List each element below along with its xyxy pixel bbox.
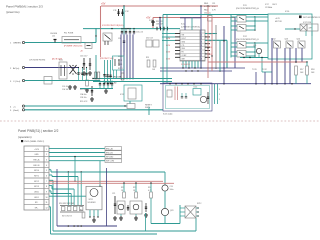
cap C22 [127,205,129,211]
svg-text:Q12: Q12 [272,39,276,41]
svg-text:FB: FB [182,52,184,54]
key stem 2 [80,172,82,207]
cap C21 with ground [114,196,116,214]
svg-text:K0 K1 K2 K3: K0 K1 K2 K3 [62,216,72,218]
sub circuit red wires [174,87,176,101]
svg-text:KEY1: KEY1 [34,175,39,177]
junction dots vertical bundle [207,47,208,48]
teal wire to optics [163,14,268,16]
fuse F11 box [62,37,81,44]
photo interrupter B body 1 [237,42,246,49]
ground under speaker pins [93,218,95,220]
svg-text:PI11: PI11 [243,5,247,7]
svg-text:8: 8 [46,186,47,188]
svg-text:CHOKE: CHOKE [50,33,58,35]
svg-text:(PHOTOINTERRUPTER)_A: (PHOTOINTERRUPTER)_A [236,7,259,10]
svg-text:R17: R17 [300,69,303,71]
svg-text:12.5MHz: 12.5MHz [265,7,272,9]
svg-text:C1H 104: C1H 104 [62,89,68,91]
junction dots on sub box bus [169,83,171,85]
resistor R1C [121,73,124,80]
svg-text:Panel PWB(S1) | section 2/2: Panel PWB(S1) | section 2/2 [18,129,59,133]
IC12 right pins [205,33,210,35]
cap column C20 [107,60,109,84]
navy stub wire near RA11 [180,17,201,19]
svg-text:10K 10K: 10K 10K [156,23,164,25]
svg-text:+5V: +5V [101,3,106,6]
junction dots on labeled wires [92,78,93,79]
svg-text:4: 4 [46,165,47,167]
capacitor C1E [91,86,93,96]
diode bridge D12 [85,43,92,49]
svg-text:(power line): (power line) [6,10,20,14]
capacitor C11 [118,9,120,16]
photo interrupter A body 2 [237,25,246,32]
svg-text:C1A 10u: C1A 10u [80,93,87,96]
transistor Q22 box [130,201,142,214]
node junction on +5V rail [200,5,202,7]
ground under Q22 [135,214,137,216]
choke L11 [54,40,56,43]
svg-text:SP-: SP- [35,202,39,204]
sub caps right [207,92,209,104]
svg-text:SP12: SP12 [197,203,201,205]
svg-text:SW11: SW11 [145,107,151,109]
vertical wires right of IC12 [200,6,202,68]
speaker SP11 box [86,186,102,210]
capacitor C16 [83,58,85,70]
key stem 4 [73,189,75,207]
wire row9 rail y193.5 [49,190,51,192]
main line wire from connector [25,42,96,44]
svg-text:1.2 0.0 3.1: 1.2 0.0 3.1 [181,64,190,66]
photo interrupter B body 2 [237,51,246,58]
IC12 left input wires [162,33,175,35]
key switch rail top [60,205,84,207]
svg-text:SCL1: SCL1 [118,60,122,62]
svg-text:1: 1 [219,99,220,101]
not mounted box bottom [185,206,196,218]
svg-text:IC17: IC17 [265,4,269,6]
vertical wire bundle centre [120,35,122,79]
svg-text:6: 6 [46,175,47,177]
wire below Q23 [164,216,166,224]
pin dots below caps [104,83,105,84]
svg-text:2: 2 [46,154,47,156]
wire row4 branch down [99,161,101,187]
svg-text:PI12: PI12 [243,36,247,38]
net label boxes [105,147,122,151]
resistor by speaker [82,212,85,218]
svg-text:SW1 SW2 SW3 SW4: SW1 SW2 SW3 SW4 [59,203,74,205]
resistor R19 [147,60,150,67]
svg-text:+4.2V: +4.2V [275,18,281,20]
navy vertical right of speaker [106,168,108,226]
PI A left wires [231,16,237,18]
bottom cap bank rail [80,88,113,90]
svg-text:R1D 4.7K: R1D 4.7K [80,101,88,103]
svg-text:OSC1: OSC1 [272,4,277,6]
svg-text:IC15 (sub): IC15 (sub) [163,114,173,116]
PI B left wires [231,42,237,44]
svg-text:ENC-A1: ENC-A1 [106,147,113,150]
GND wire [25,109,163,111]
PI A wires [246,16,255,18]
svg-text:RL11: RL11 [59,60,63,62]
cap column filter 3 [86,68,88,81]
svg-text:C24: C24 [170,186,173,188]
svg-text:C1G 104: C1G 104 [62,86,68,88]
IC12 body [180,30,205,61]
svg-text:GREEN: GREEN [13,43,21,45]
svg-text:IC11 PROTECTOR(5.0V): IC11 PROTECTOR(5.0V) [102,25,124,27]
PI A to main unit wires [255,16,268,18]
ground under Q21 [120,214,122,216]
bottom wire to X-box [151,223,180,225]
svg-text:(operation): (operation) [18,135,32,139]
diode D11 [151,21,155,23]
svg-text:VOUT: VOUT [182,38,186,40]
wire navy vertical x160 [159,18,161,29]
svg-text:4.7KX4: 4.7KX4 [204,6,210,8]
svg-text:ISET: ISET [182,58,186,60]
svg-text:R19: R19 [146,57,149,59]
teal wire lower right [240,57,268,59]
legend not-mounted [299,16,302,19]
wire row12 bottom rail [49,206,51,208]
svg-text:SNS: SNS [182,48,185,50]
svg-text:12: 12 [45,207,47,209]
IC12 bottom pins to bus [182,61,184,68]
svg-text:SOUNDER: SOUNDER [88,202,97,204]
svg-text:TO11: TO11 [252,69,257,71]
svg-text:5: 5 [46,170,47,172]
svg-text:(CHARGE CONTROL): (CHARGE CONTROL) [181,26,200,29]
wire red vertical x153 [152,18,154,29]
main horizontal bus at sub box top [160,83,311,85]
svg-text:COMP: COMP [182,55,187,57]
verticals from transistors [271,38,273,84]
svg-text:F11 FUSE: F11 FUSE [64,33,74,35]
svg-text:SDA1: SDA1 [118,55,122,58]
wire row6 rail y176.5 [49,174,52,176]
resistor array RA11 body [208,16,213,22]
red rail bottom section lower [49,182,174,184]
svg-text:R18: R18 [311,69,314,71]
protector IC Q10 body [103,33,112,41]
main unit teal box [268,14,312,59]
transistor Q12 [274,41,281,48]
PI B to main unit wire [255,42,268,44]
wire row5 to rail 172 [49,169,51,171]
ground under C16 [83,71,85,73]
sub box right vertical wires [214,84,216,104]
svg-text:+C: +C [13,106,16,108]
cap column C19 [104,60,106,84]
transistor Q14 [298,41,305,48]
junction dots on navy bottom rail [68,225,70,227]
svg-text:KEY0: KEY0 [34,170,39,172]
cap column C21a [110,60,112,84]
svg-text:MOTOR: MOTOR [275,21,282,23]
wire riser x145 [145,213,147,231]
transistor Q13 [286,41,293,48]
+5V rail top [101,5,218,7]
riser to C24 [164,172,166,185]
svg-text:Q11: Q11 [253,45,256,47]
x-box stubs [180,207,185,209]
left labeled wire POWER SW [93,78,172,80]
svg-text:3: 3 [219,89,220,91]
wire riser to speaker network [195,218,197,231]
reset ic lower box [127,104,135,109]
reset sw stub [148,107,150,115]
+5V secondary rail [153,17,235,19]
ground under C17 [89,71,91,73]
reset IC box [124,85,142,101]
connector CN12 header [21,140,23,142]
resistor R1B [98,72,100,79]
resistor R18 [306,66,309,75]
component boxes right of bundle [146,40,152,47]
teal vertical mid-left [95,55,97,79]
svg-text:D12 D13: D12 D13 [146,38,153,40]
teal vertical second [166,15,168,84]
svg-text:LED0: LED0 [34,191,39,193]
wire row8 rail y189 [49,185,52,187]
ground bottom cap bank [105,89,107,91]
key stem 3 [77,177,79,207]
main 5V bus wire [83,28,180,30]
+5V rail vertical drop [100,6,102,29]
vertical stubs right of teal box [113,70,115,79]
svg-text:11: 11 [46,202,48,204]
PI B wires [246,42,255,44]
ground under C1E [91,97,93,99]
speaker pins [89,210,91,217]
svg-text:IC12: IC12 [181,24,185,26]
svg-text:ENC-A: ENC-A [34,158,41,161]
svg-text:LED1: LED1 [34,197,39,199]
svg-text:C31: C31 [212,3,215,5]
cap C23 and ground [145,203,147,212]
teal vertical to sub box [162,15,164,84]
section separator dashed line [0,120,320,122]
resistor R20 [153,60,156,67]
navy bottom rail [57,225,117,227]
wire row10 to speaker [49,195,86,197]
svg-text:1: 1 [46,149,47,151]
electrolytic cap C24 [162,185,168,191]
wire row3 branch down [74,157,76,182]
svg-text:2: 2 [219,94,220,96]
svg-text:Q23: Q23 [170,210,173,212]
resistor ticks on bus [156,27,158,31]
resistor R17 [295,66,298,75]
junction dots on 5V bus [111,28,112,29]
speaker cone circle [90,189,98,197]
svg-text:(PHOTOINTERRUPTER)_B: (PHOTOINTERRUPTER)_B [236,39,259,41]
svg-text:IC13: IC13 [120,94,124,96]
transistor Q11 [256,48,261,53]
HD wire [25,105,127,107]
junction on secondary rail [159,17,161,19]
sub circuit outer box [163,83,212,111]
svg-text:NOT-MOUNTED PARTS: NOT-MOUNTED PARTS [303,16,320,19]
svg-text:9: 9 [46,191,47,193]
wires from +5V rail to IC12 top [184,18,186,31]
C out wire [25,80,100,82]
cap column filter 2 [82,68,84,81]
svg-text:AC(in): AC(in) [13,67,19,70]
wire teal from IC12 pin to right [205,33,217,35]
svg-text:(POWER ON:DC5V): (POWER ON:DC5V) [64,46,83,48]
key stem 1 [67,172,69,207]
node junction on +5V rail at C bank [123,5,125,7]
power sw bus upper [160,67,245,69]
svg-text:KEY3: KEY3 [34,186,39,188]
AC in wire [25,67,78,69]
svg-text:C1F (NOISE FILTER): C1F (NOISE FILTER) [29,60,46,62]
svg-text:CTL: CTL [182,45,185,47]
key switch rail bottom [60,211,84,213]
svg-text:100u: 100u [170,189,174,191]
svg-text:Q14: Q14 [297,39,301,41]
key switches SW1-SW4 [62,207,65,211]
svg-text:(Gnd): (Gnd) [13,110,19,112]
svg-text:SW COM: SW COM [106,161,114,163]
resistor R14 [86,80,89,86]
capacitor C12 [122,9,124,16]
stub wires below not mounted box [305,31,307,36]
connector CN12 table [24,146,49,210]
sub circuit caps [181,96,183,98]
capacitor C17 [89,58,91,70]
wire rows 1-4 to net labels [49,147,105,149]
teal wire into legend area [285,28,300,30]
bottom cap bank [99,81,101,84]
key stem 5 [70,194,72,207]
teal L wire below main unit box [261,58,263,73]
wire teal up from bridge to bus [95,28,97,43]
svg-text:CN12 (PANEL PWB 2): CN12 (PANEL PWB 2) [24,140,44,143]
crystal X11 box [167,90,172,97]
power sw bus lower [160,70,232,72]
not mounted component box [300,24,318,31]
svg-text:3: 3 [46,159,47,161]
grounds under filter caps [69,85,71,87]
svg-text:GND: GND [34,154,39,156]
small IC box teal mid [113,56,125,70]
svg-text:Q13: Q13 [285,39,289,41]
+B red rail right [208,61,307,63]
svg-text:ENC-B1: ENC-B1 [106,153,113,155]
diode bridge D14 [70,65,77,74]
svg-text:SP11: SP11 [89,199,93,201]
svg-text:7: 7 [46,181,47,183]
relay RL11 box [59,62,67,79]
crystal oscillator circle [200,96,206,102]
svg-text:TO12: TO12 [262,69,267,71]
svg-text:C16 C17: C16 C17 [80,56,87,58]
capacitor bank under bus [121,28,122,29]
cap column filter 1 [78,68,80,81]
sub circuit inner box [166,86,210,109]
svg-text:RA11: RA11 [204,2,208,5]
wire from C24 down [164,191,166,208]
red +5V drop continues below bus [100,29,102,57]
resistor R1A [95,72,97,79]
svg-text:IC14: IC14 [194,87,198,89]
svg-text:+5VS: +5VS [34,149,39,151]
svg-text:C1B 10u: C1B 10u [80,97,87,99]
navy vertical left of keys [56,169,58,226]
left labeled wire 2 [93,81,172,83]
transistor Q23 [161,208,168,215]
svg-text:ENC-B: ENC-B [34,165,41,167]
svg-text:KEY2: KEY2 [34,181,39,183]
IC12 left pins [175,33,180,35]
teal rail y172 [51,171,165,173]
wire row7 long vertical [49,179,53,181]
svg-text:Panel PWB(M) | section 2/3: Panel PWB(M) | section 2/3 [6,5,43,9]
capacitor C18 under bus [123,29,125,41]
ground under R14 [86,88,88,90]
svg-text:C.(Out): C.(Out) [13,80,20,83]
transistor Q21 box [117,201,125,214]
junction dots on buses [182,67,183,68]
component box on C out row [44,77,52,85]
svg-text:C13-C16: C13-C16 [136,32,143,34]
svg-text:C21: C21 [112,193,115,195]
svg-text:10: 10 [45,197,47,199]
wire teal vertical from +5V to main bus [123,6,125,28]
svg-text:KEY-IN0: KEY-IN0 [106,157,113,159]
reset IC14 box [193,89,201,96]
red rail bottom section upper [49,180,163,182]
svg-text:0.1u: 0.1u [212,6,216,8]
wire teal pin2 right [205,39,227,41]
dots on AC wire [78,67,79,68]
photo interrupter A body 1 [237,16,246,23]
